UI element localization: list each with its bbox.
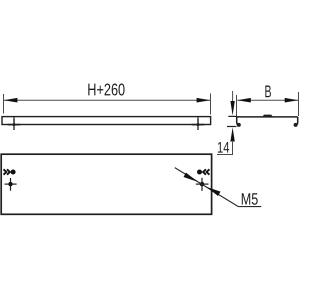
svg-text:14: 14 — [217, 140, 230, 157]
dimension 14 leader to label — [217, 141, 233, 155]
dimension B right arrowhead — [285, 98, 298, 103]
section profile left hook — [237, 117, 240, 125]
rail right hole centre mark — [192, 119, 204, 130]
M5 leader arrowhead lower (points at hole) — [206, 187, 220, 196]
rail left end seam — [13, 117, 15, 125]
dimension 14 lower arrowhead (points up) — [230, 127, 234, 141]
svg-text:M5: M5 — [241, 191, 259, 209]
plate right hole centre mark — [196, 178, 209, 191]
side view rail body — [2, 117, 211, 125]
dimension B right extension line — [298, 92, 300, 116]
dimension 14 upper reference tick — [228, 115, 237, 117]
rail right end seam — [197, 117, 199, 125]
dimension H+260 line — [4, 99, 211, 101]
dimension 14 lower reference tick — [227, 126, 236, 128]
section profile top flange — [237, 116, 298, 118]
dimension B line — [237, 99, 298, 101]
plate left hole centre mark — [5, 178, 17, 191]
section profile right hook — [295, 117, 298, 125]
svg-text:H+260: H+260 — [87, 80, 125, 99]
dimension H+260 left arrowhead — [4, 98, 18, 103]
feed direction symbol left (two chevrons and dot) — [4, 169, 10, 174]
feed direction symbol right (dot and two chevrons) — [197, 170, 202, 175]
top view plate outline — [1, 154, 211, 214]
dimension 14 upper arrowhead (points down) — [230, 101, 234, 116]
M5 leader diagonal line — [175, 168, 239, 207]
svg-text:B: B — [264, 82, 271, 101]
dimension B left arrowhead — [237, 98, 250, 103]
section profile centre rib — [262, 115, 274, 118]
dimension H+260 extension line right — [210, 94, 212, 115]
M5 leader underline shoulder — [238, 206, 261, 208]
dimension 14 line above — [232, 91, 234, 102]
dimension H+260 extension line left — [3, 94, 5, 114]
dimension B left extension line — [236, 95, 238, 117]
dimension H+260 right arrowhead — [197, 98, 211, 103]
rail left hole centre mark — [8, 119, 20, 130]
M5 leader arrowhead upper (points at hole) — [184, 173, 198, 182]
